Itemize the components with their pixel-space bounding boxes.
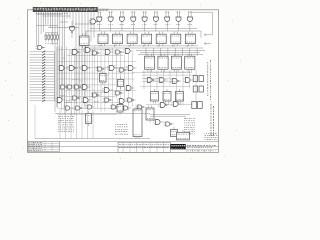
wire [87, 110, 89, 139]
wire bus [86, 30, 201, 32]
wire [150, 70, 152, 94]
wire [182, 48, 184, 56]
nand gate E3 [119, 12, 124, 29]
connector box J2 [177, 130, 190, 140]
gate E65 [122, 106, 132, 110]
wire [150, 115, 186, 117]
gate E26 [123, 49, 133, 54]
gate E31 [107, 66, 117, 71]
nand gate E6 [153, 12, 158, 29]
wire [49, 12, 51, 28]
wire [69, 12, 71, 19]
gate E74 [164, 122, 174, 126]
title strip line [28, 146, 219, 148]
margin note text [207, 62, 209, 96]
register E51 [158, 54, 168, 72]
wire [174, 48, 176, 56]
wire [90, 12, 92, 42]
gate E44 [81, 98, 91, 103]
gate E32 [118, 68, 128, 72]
wire [56, 47, 58, 107]
title note text [205, 134, 218, 140]
wire junction [178, 29, 180, 31]
wire [163, 70, 165, 105]
nand gate E8 [176, 12, 181, 29]
gate E47 [126, 98, 136, 102]
wire bus [84, 47, 203, 49]
nand gate E7 [165, 12, 170, 29]
gate E27 [57, 66, 67, 71]
wire [140, 86, 190, 88]
header labels [99, 9, 109, 11]
wire [81, 110, 83, 139]
wire [34, 105, 36, 139]
wire [95, 92, 104, 94]
wire [146, 104, 196, 106]
gate E30 [96, 67, 106, 71]
wire [182, 70, 184, 105]
gate E22 [83, 48, 93, 53]
wire [63, 51, 65, 115]
wire [45, 12, 47, 25]
gate E62 [74, 106, 84, 110]
wire [96, 50, 98, 108]
wire [212, 12, 214, 35]
wire [66, 12, 68, 19]
wire [59, 110, 61, 139]
signal-name header bar [33, 7, 98, 12]
wire [176, 70, 178, 103]
margin note text [209, 60, 211, 100]
gate E34 [59, 85, 69, 89]
wire [71, 51, 73, 115]
drawing number table [118, 142, 171, 152]
wire [84, 49, 86, 105]
register E53 [185, 54, 195, 72]
flip-flop E10A [80, 33, 90, 48]
gate E28 [67, 66, 78, 71]
wire [57, 113, 117, 115]
wire [56, 12, 58, 108]
switch pack S3 [192, 102, 197, 109]
flip-flop E16 [171, 32, 181, 47]
wire [37, 25, 59, 27]
wire junction [144, 29, 146, 31]
wire [195, 70, 197, 106]
wire [72, 12, 74, 30]
wire [94, 101, 99, 103]
wire [70, 110, 72, 139]
register E70 [146, 105, 154, 122]
wire [116, 50, 118, 98]
wire stub [205, 43, 211, 45]
gate E71 [158, 103, 169, 108]
wire [59, 95, 65, 97]
wire [60, 96, 115, 98]
wire [66, 100, 72, 102]
wire [61, 46, 63, 110]
wire [57, 78, 134, 80]
manufacturer logo [170, 144, 185, 149]
wire [38, 12, 40, 50]
pin list text [58, 117, 74, 132]
decoder E48 [100, 71, 107, 85]
gate E29 [80, 66, 90, 71]
wire junction [189, 29, 191, 31]
flip-flop E11 [98, 32, 108, 47]
wire [64, 102, 118, 104]
wire stub [205, 34, 213, 36]
latch E59 [163, 89, 171, 104]
wire [142, 80, 178, 82]
nand gate E1 [97, 12, 102, 29]
wire junction [110, 29, 112, 31]
register E69 [133, 106, 142, 139]
wire [83, 101, 90, 103]
wire [190, 11, 213, 13]
wire [60, 21, 68, 23]
wire [62, 57, 65, 59]
wire [150, 114, 190, 116]
wire [81, 47, 83, 107]
gate E42 [55, 98, 65, 103]
wire [132, 72, 192, 74]
switch pack S1 [193, 76, 197, 82]
resistor pack RP1 [45, 33, 58, 43]
wire [156, 70, 158, 93]
gate E25 [114, 50, 124, 54]
flip-flop E12 [113, 32, 123, 47]
wire [131, 53, 133, 108]
wire [142, 77, 175, 79]
wire junction [121, 29, 123, 31]
gate E66 [136, 105, 146, 109]
wire junction [155, 29, 157, 31]
nand gate E9 [187, 12, 192, 29]
wire [81, 12, 83, 96]
switch pack S2 [193, 86, 197, 92]
wire [42, 15, 70, 17]
gate E45 [103, 98, 113, 102]
wire [42, 12, 44, 32]
gate E39 [102, 88, 112, 93]
wire [37, 13, 63, 15]
gate E35 [66, 85, 76, 89]
wire [55, 113, 150, 115]
wire [143, 70, 145, 89]
one-shot E67 [86, 111, 92, 126]
wire [65, 90, 136, 92]
driver E75 [171, 127, 178, 137]
note text [115, 125, 128, 135]
flip-flop E13 [127, 32, 137, 47]
wire [104, 74, 109, 76]
decoder E49 [118, 77, 124, 89]
wire [108, 49, 110, 100]
wire [169, 70, 171, 86]
gate E10 [36, 45, 46, 49]
register E52 [171, 54, 181, 72]
wire [189, 48, 191, 56]
wire [64, 12, 66, 108]
wire [72, 78, 81, 80]
wire [57, 60, 136, 62]
wire [189, 70, 191, 89]
wire [61, 12, 63, 100]
flip-flop E14 [142, 32, 152, 47]
gate E24 [103, 50, 113, 55]
wire [76, 48, 78, 107]
wire bus [90, 28, 197, 30]
wire [86, 47, 88, 105]
wire [152, 48, 154, 56]
gate E57 [183, 78, 193, 83]
wire [81, 68, 89, 70]
gate E20A [89, 19, 100, 24]
wire [200, 31, 202, 38]
wire [83, 50, 88, 52]
wire [92, 110, 94, 139]
wire [76, 110, 78, 139]
gate E40 [114, 91, 124, 95]
wire [47, 12, 49, 25]
margin title text [211, 104, 214, 136]
wire [48, 27, 79, 29]
nand gate E5 [142, 12, 147, 29]
wire [40, 12, 42, 34]
register E50 [145, 54, 155, 72]
wire [100, 49, 102, 112]
wire [79, 52, 81, 113]
gate E23 [91, 51, 101, 55]
wire [68, 50, 70, 102]
wire [73, 47, 75, 115]
wire junction [132, 29, 134, 31]
wire junction [98, 29, 100, 31]
wire [59, 12, 61, 104]
wire [167, 48, 169, 56]
wire [66, 66, 133, 68]
wire [142, 71, 190, 73]
wire [89, 50, 91, 100]
wire bus [138, 53, 203, 55]
wire [66, 47, 68, 112]
gate E38 [91, 93, 101, 97]
wire bus [136, 49, 205, 51]
wire [196, 48, 198, 56]
latch E58 [151, 89, 159, 104]
wire [57, 72, 134, 74]
wire [111, 65, 115, 67]
sheet number cells [170, 149, 218, 152]
gate E55 [157, 78, 167, 83]
wire [145, 48, 147, 56]
wire [160, 48, 162, 56]
nand gate E2 [108, 12, 113, 29]
gate E72 [171, 102, 181, 107]
wire [28, 140, 219, 142]
wire [58, 108, 116, 110]
gate E33 [126, 66, 136, 71]
wire [65, 110, 67, 139]
wire [104, 54, 106, 111]
revision table [28, 141, 60, 151]
wire [75, 23, 96, 25]
gate E36 [73, 85, 83, 89]
gate E41 [124, 86, 134, 91]
wire bus [80, 45, 198, 47]
wire junction [166, 29, 168, 31]
gate E43 [71, 96, 81, 100]
inverter E20 [5, 2, 241, 159]
flip-flop E17 [185, 32, 195, 47]
wire [85, 31, 87, 36]
wire [127, 49, 129, 110]
gate E54 [145, 78, 156, 83]
wire [106, 67, 110, 69]
connector J1 pin ladder [30, 51, 55, 102]
wire [54, 12, 56, 112]
flip-flop E15 [156, 32, 166, 47]
wire [78, 12, 80, 100]
gate E56 [170, 79, 181, 84]
gate E46 [117, 99, 127, 104]
wire [75, 12, 77, 104]
wire bus [140, 52, 200, 54]
wire [93, 12, 95, 38]
wire [112, 48, 114, 108]
latch E60 [176, 89, 184, 104]
wire [142, 74, 197, 76]
wire [52, 12, 54, 45]
wire [79, 80, 83, 82]
gate E21 [70, 50, 81, 55]
wire [123, 55, 125, 101]
gate E63 [86, 105, 96, 109]
wire [67, 54, 123, 56]
gate E37 [80, 85, 90, 90]
wire [63, 84, 121, 86]
wire [35, 138, 150, 140]
decoder E68 [117, 102, 123, 115]
company name text [187, 145, 216, 147]
gate E64 [110, 105, 120, 109]
wire [91, 49, 93, 107]
wire [84, 12, 86, 108]
wire [58, 46, 60, 104]
wire [87, 12, 89, 46]
wire [94, 46, 96, 105]
wire [120, 51, 122, 110]
wire [64, 101, 72, 103]
note text [184, 119, 195, 134]
wire junction dots [99, 45, 187, 46]
wire [36, 12, 38, 46]
gate E61 [64, 106, 74, 110]
wire [57, 49, 113, 51]
gate E73 [153, 120, 163, 125]
nand gate E4 [131, 12, 136, 29]
